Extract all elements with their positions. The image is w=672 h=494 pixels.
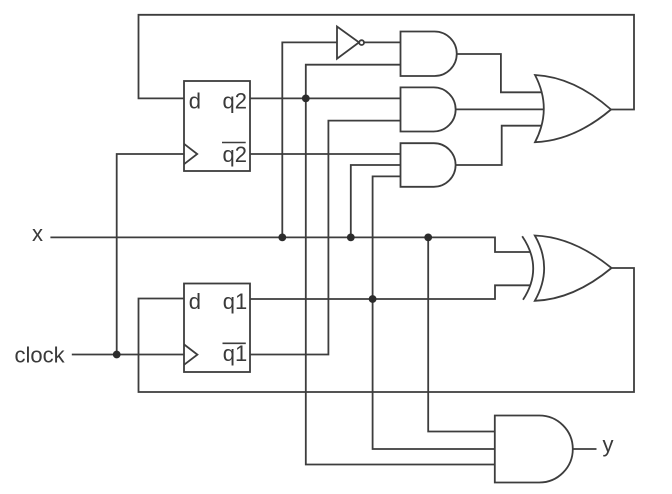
- svg-text:q1: q1: [223, 341, 247, 366]
- svg-text:q1: q1: [223, 289, 247, 314]
- svg-text:y: y: [603, 432, 614, 457]
- svg-text:q2: q2: [223, 142, 247, 167]
- svg-text:d: d: [189, 88, 201, 113]
- svg-text:d: d: [189, 289, 201, 314]
- svg-text:q2: q2: [223, 88, 247, 113]
- svg-text:clock: clock: [15, 343, 66, 368]
- svg-text:x: x: [32, 221, 43, 246]
